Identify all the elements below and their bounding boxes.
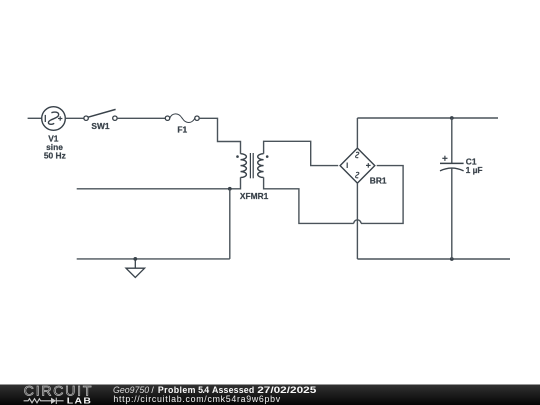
- CircuitLab logo: [24, 383, 94, 405]
- junction ground tap: [133, 257, 137, 261]
- wire F1 to XFMR1 primary top: [199, 118, 240, 153]
- switch SW1: [84, 109, 117, 120]
- transformer XFMR1 primary coil: [241, 154, 247, 178]
- svg-text:http://circuitlab.com/cmk54ra9: http://circuitlab.com/cmk54ra9w6pbv: [113, 394, 280, 404]
- rectifier BR1: [340, 148, 375, 183]
- label V1 "V1 sine 50 Hz": [44, 134, 66, 161]
- wire BR1 bottom to minus rail: [356, 183, 358, 259]
- svg-text:XFMR1: XFMR1: [240, 191, 269, 201]
- wire bottom rail: [357, 258, 510, 260]
- ground: [126, 259, 145, 278]
- junction at primary bottom: [228, 187, 232, 191]
- fuse F1: [165, 114, 199, 123]
- junction top rail C1: [450, 116, 454, 120]
- wire V1 to SW1: [65, 117, 84, 119]
- XFMR1 phase dot secondary: [266, 155, 269, 158]
- label C1 value: [466, 156, 483, 175]
- wire XFMR1 primary bottom to left: [77, 177, 241, 188]
- wire BR1 top to plus rail: [356, 118, 358, 148]
- svg-text:LAB: LAB: [67, 397, 92, 405]
- footer bar: [0, 385, 540, 405]
- wire XFMR1 secondary bottom to BR1 right with hop: [264, 166, 404, 224]
- voltage source V1: [42, 107, 66, 131]
- XFMR1 phase dot primary: [236, 155, 239, 158]
- transformer XFMR1 secondary coil: [258, 154, 264, 178]
- svg-text:1 µF: 1 µF: [466, 165, 483, 175]
- junction bottom rail C1: [450, 257, 454, 261]
- svg-text:F1: F1: [177, 124, 187, 134]
- svg-text:BR1: BR1: [370, 176, 387, 186]
- svg-text:SW1: SW1: [91, 121, 109, 131]
- wire top rail: [357, 117, 498, 119]
- wire bottom-left rail: [77, 258, 230, 260]
- wire SW1 to F1: [117, 117, 165, 119]
- svg-text:50 Hz: 50 Hz: [44, 151, 66, 161]
- wire junction down: [229, 189, 231, 259]
- capacitor C1: [440, 118, 464, 259]
- transformer XFMR1 core: [250, 153, 253, 178]
- wire stub left of V1: [28, 117, 42, 119]
- footer text: [113, 385, 317, 404]
- wire XFMR1 secondary top to BR1 left: [264, 141, 339, 165]
